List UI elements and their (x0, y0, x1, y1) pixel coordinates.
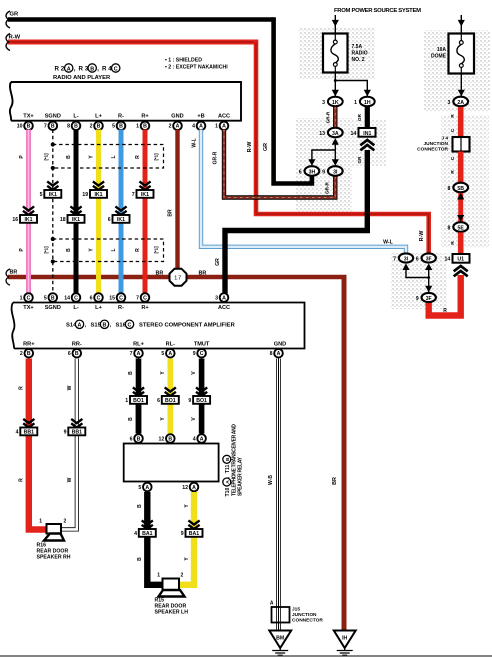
svg-text:A: A (168, 351, 172, 357)
svg-text:4: 4 (16, 429, 19, 435)
svg-text:R-W: R-W (247, 141, 253, 153)
wire R from J4 to 5B (450, 152, 461, 183)
svg-text:IK1: IK1 (72, 217, 80, 223)
connector J4 junction (417, 136, 469, 153)
svg-text:GR-R: GR-R (213, 151, 219, 164)
svg-text:J 4: J 4 (441, 136, 448, 142)
svg-text:RL-: RL- (166, 342, 175, 348)
wire R from 5E to U1 (450, 232, 461, 254)
speaker R16 rear door RH (37, 519, 71, 561)
branch from 3A to 3H and 3I (308, 138, 339, 166)
page footer rule (0, 655, 492, 657)
svg-text:6: 6 (68, 351, 71, 357)
stipple shading around dome fuse (424, 30, 490, 112)
svg-text:13: 13 (319, 131, 325, 137)
svg-text:GR: GR (357, 156, 362, 164)
svg-text:A: A (225, 480, 231, 484)
svg-text:GR: GR (357, 113, 362, 121)
svg-text:,: , (97, 66, 99, 73)
svg-text:6: 6 (130, 436, 133, 442)
svg-text:8: 8 (270, 351, 273, 357)
svg-text:SPEAKER RELAY: SPEAKER RELAY (238, 456, 244, 496)
svg-text:+B: +B (197, 113, 204, 119)
svg-text:TELEPHONE TRANSCEIVER AND: TELEPHONE TRANSCEIVER AND (232, 424, 238, 496)
svg-text:B: B (128, 371, 134, 375)
svg-text:CONNECTOR: CONNECTOR (417, 147, 448, 153)
svg-text:A: A (137, 351, 141, 357)
svg-text:1: 1 (157, 573, 160, 579)
svg-text:B: B (137, 504, 143, 508)
svg-text:1: 1 (136, 124, 139, 130)
label RADIO AND PLAYER (53, 75, 111, 81)
connector 8 5E (448, 222, 469, 232)
svg-text:R-W: R-W (419, 230, 425, 242)
svg-text:IH: IH (342, 636, 347, 642)
svg-text:GR: GR (263, 143, 269, 151)
svg-text:B: B (66, 155, 72, 159)
svg-text:17: 17 (174, 276, 182, 282)
svg-text:GND: GND (171, 113, 183, 119)
dome feed arrow (458, 15, 465, 34)
svg-text:B: B (51, 124, 55, 130)
svg-text:7.5A: 7.5A (352, 44, 363, 50)
wire BR radio GND down to bus (168, 130, 178, 272)
wire L R- blue (111, 130, 121, 294)
fuse 7.5A RADIO NO.2 (323, 34, 368, 73)
svg-text:2: 2 (90, 124, 93, 130)
stipple shading around 3A 3H 3I connectors (296, 118, 352, 213)
connector 7 3I right (393, 253, 413, 270)
svg-text:7: 7 (393, 256, 396, 262)
svg-text:BR: BR (156, 271, 164, 277)
svg-text:1H: 1H (364, 100, 371, 106)
svg-text:3F: 3F (426, 296, 432, 302)
svg-text:C: C (27, 295, 31, 301)
svg-text:C: C (450, 156, 456, 160)
connector 5 IK1 on SGND (40, 181, 62, 198)
svg-text:GR: GR (10, 12, 20, 18)
svg-text:JUNCTION: JUNCTION (423, 141, 448, 147)
wire GR from 1H to IN1 (357, 107, 368, 128)
svg-text:C: C (119, 295, 123, 301)
radio pin labels (23, 113, 230, 119)
svg-text:W-L: W-L (383, 240, 394, 246)
svg-text:R-: R- (118, 305, 124, 311)
svg-text:9: 9 (181, 531, 184, 537)
svg-text:BA1: BA1 (189, 531, 199, 537)
label R2 A R3 B R4 C (55, 64, 120, 73)
svg-text:BR: BR (199, 271, 207, 277)
svg-text:T11: T11 (225, 465, 231, 474)
svg-text:L-: L- (73, 305, 78, 311)
svg-text:5: 5 (44, 295, 47, 301)
svg-text:9: 9 (193, 351, 196, 357)
svg-text:TX+: TX+ (23, 305, 34, 311)
svg-text:C: C (200, 351, 204, 357)
svg-text:STEREO COMPONENT AMPLIFIER: STEREO COMPONENT AMPLIFIER (139, 323, 236, 329)
svg-text:BO1: BO1 (196, 398, 207, 404)
wire R from 5B to 5E (457, 193, 464, 222)
svg-text:IK1: IK1 (94, 192, 102, 198)
svg-text:A: A (222, 124, 226, 130)
relay output pin circles (138, 483, 198, 492)
connector J15 junction (270, 601, 323, 624)
svg-text:3: 3 (215, 295, 218, 301)
svg-text:GR: GR (215, 258, 221, 266)
svg-text:R: R (19, 478, 25, 482)
svg-text:10: 10 (17, 124, 23, 130)
feed into 2A (458, 74, 465, 97)
svg-text:SGND: SGND (45, 113, 61, 119)
svg-text:2: 2 (169, 124, 172, 130)
connector 16 IK1 on TX+ (12, 206, 37, 223)
svg-text:L: L (111, 155, 117, 158)
amp input pin circles (20, 293, 229, 302)
amp output pin circles (20, 349, 283, 358)
wire BR horizontal bus (6, 269, 346, 285)
wire R RR+ red to speaker RH (19, 359, 49, 530)
svg-text:B: B (66, 248, 72, 252)
svg-text:2: 2 (64, 519, 67, 525)
shield dashed box 2 (44, 237, 164, 264)
svg-text:BO1: BO1 (165, 398, 176, 404)
svg-text:IN1: IN1 (363, 131, 371, 137)
wire Y relay to speaker LH (177, 492, 194, 585)
svg-text:B: B (143, 124, 147, 130)
wire W-L from +B (192, 130, 407, 254)
svg-text:B: B (119, 124, 123, 130)
svg-text:GR-R: GR-R (325, 181, 330, 193)
connector 6 3H (299, 166, 320, 176)
svg-text:A: A (199, 124, 203, 130)
svg-text:L: L (111, 248, 117, 251)
svg-text:12: 12 (182, 485, 188, 491)
svg-text:R: R (450, 170, 456, 174)
svg-text:J15: J15 (292, 607, 300, 613)
svg-text:L+: L+ (95, 305, 102, 311)
svg-text:R+: R+ (141, 113, 149, 119)
ground BM (269, 631, 291, 656)
connector 4 BB1 (16, 419, 38, 436)
svg-text:19: 19 (82, 192, 88, 198)
svg-text:B: B (128, 417, 134, 421)
svg-text:7: 7 (44, 124, 47, 130)
amp output pin labels (23, 342, 286, 348)
svg-text:DOME: DOME (431, 54, 447, 60)
svg-text:B: B (74, 124, 78, 130)
connector 9 3I (322, 166, 343, 194)
svg-text:• 1 : SHIELDED: • 1 : SHIELDED (165, 58, 202, 64)
svg-text:W: W (67, 477, 73, 482)
svg-text:B: B (168, 436, 172, 442)
wire R R+ red (135, 130, 145, 294)
svg-text:SPEAKER LH: SPEAKER LH (155, 610, 189, 616)
connector 1 1H (354, 97, 375, 107)
connector 1 BO1 (125, 387, 147, 404)
amplifier box (12, 303, 305, 349)
svg-text:6: 6 (108, 217, 111, 223)
svg-text:RR-: RR- (72, 342, 82, 348)
shield dashed box 1 (44, 142, 164, 170)
svg-text:3H: 3H (309, 169, 316, 175)
svg-text:BR: BR (332, 477, 338, 485)
svg-text:A: A (67, 66, 71, 72)
svg-text:6: 6 (416, 256, 419, 262)
svg-text:W-L: W-L (192, 138, 198, 147)
svg-text:3A: 3A (332, 131, 339, 137)
wire GR-R from 1K to 3A (326, 107, 336, 127)
svg-text:BB1: BB1 (72, 429, 82, 435)
svg-text:R-: R- (118, 113, 124, 119)
svg-text:7: 7 (136, 295, 139, 301)
svg-text:IK1: IK1 (141, 192, 149, 198)
radio pin circles row (17, 122, 229, 131)
svg-text:1: 1 (215, 124, 218, 130)
feed split below radio fuse (332, 73, 371, 97)
connector 13 3A (319, 128, 342, 138)
wire Y RL- yellow (160, 359, 170, 434)
wire SGND shield drain dashed (52, 130, 54, 294)
svg-text:5: 5 (40, 192, 43, 198)
svg-text:L-: L- (73, 113, 78, 119)
svg-text:R 3: R 3 (79, 66, 89, 73)
svg-text:R: R (19, 386, 25, 390)
svg-text:6: 6 (90, 295, 93, 301)
svg-text:[*1]: [*1] (44, 153, 49, 161)
stipple shading around IN1 (352, 120, 386, 166)
svg-text:BM: BM (276, 636, 284, 642)
connector 6 3F (416, 253, 436, 270)
svg-text:• 2 : EXCEPT NAKAMICHI: • 2 : EXCEPT NAKAMICHI (165, 65, 228, 71)
label S14 S15 S16 STEREO COMPONENT AMPLIFIER (66, 320, 236, 329)
svg-text:BR: BR (10, 269, 18, 275)
svg-text:14: 14 (351, 131, 357, 137)
label T10 A T11 B telephone transceiver and speaker relay (223, 424, 244, 497)
connector 3 2A (448, 97, 469, 107)
feed arrow into radio fuse (332, 15, 339, 34)
svg-text:RL+: RL+ (133, 342, 144, 348)
svg-text:14: 14 (445, 257, 451, 263)
svg-text:R+: R+ (141, 305, 149, 311)
connector 4 BA1 (134, 520, 156, 537)
svg-text:TMUT: TMUT (194, 342, 210, 348)
svg-text:T10: T10 (225, 487, 231, 496)
svg-text:2: 2 (181, 573, 184, 579)
wire R-W top horizontal from left (6, 34, 256, 51)
svg-text:BO1: BO1 (133, 398, 144, 404)
connector 6 BO1 (157, 387, 179, 404)
svg-text:A: A (145, 485, 149, 491)
svg-text:1: 1 (20, 295, 23, 301)
stipple shading around radio fuse (299, 27, 375, 79)
svg-text:R-W: R-W (9, 35, 21, 41)
svg-text:FROM POWER SOURCE SYSTEM: FROM POWER SOURCE SYSTEM (334, 8, 421, 14)
fuse 10A DOME (431, 34, 474, 74)
svg-text:5: 5 (112, 124, 115, 130)
wire V TMUT (191, 359, 201, 434)
svg-text:3I: 3I (333, 169, 338, 175)
svg-text:JUNCTION: JUNCTION (292, 612, 317, 618)
svg-text:B: B (90, 66, 94, 72)
svg-text:[*1]: [*1] (44, 246, 49, 254)
svg-text:SPEAKER RH: SPEAKER RH (37, 555, 71, 561)
svg-text:14: 14 (64, 295, 70, 301)
svg-text:IK1: IK1 (24, 217, 32, 223)
svg-text:B: B (225, 457, 231, 461)
svg-text:A: A (277, 351, 281, 357)
wire P TX+ pink (19, 130, 29, 294)
svg-text:18: 18 (60, 217, 66, 223)
svg-text:1K: 1K (332, 100, 339, 106)
svg-text:8: 8 (448, 186, 451, 192)
svg-text:9: 9 (322, 169, 325, 175)
wire B RL+ black (128, 359, 139, 434)
connector 6 IK1 on R- (108, 206, 130, 223)
svg-text:NO. 2: NO. 2 (352, 57, 365, 63)
branch below 3I 3F to 9 3F (406, 268, 432, 292)
connector 7 IK1 on R+ (132, 181, 154, 198)
svg-text:12: 12 (159, 436, 165, 442)
svg-text:5E: 5E (458, 225, 465, 231)
svg-text:R: R (443, 308, 447, 314)
connector 8 5B (448, 183, 469, 193)
wire GR from IN1 to amp ACC (215, 150, 367, 294)
svg-text:C: C (128, 323, 132, 329)
connector 3 1K (322, 97, 343, 107)
svg-text:R: R (450, 241, 456, 245)
svg-text:C: C (143, 295, 147, 301)
svg-text:5B: 5B (457, 186, 464, 192)
svg-text:BA1: BA1 (142, 531, 152, 537)
stipple shading around 3I 3F cluster (391, 253, 447, 309)
svg-text:5: 5 (138, 485, 141, 491)
svg-text:IK1: IK1 (49, 192, 57, 198)
svg-text:B: B (137, 557, 143, 561)
svg-text:6: 6 (299, 169, 302, 175)
connector 9 BO1 (188, 387, 210, 404)
svg-text:9: 9 (416, 296, 419, 302)
svg-text:R: R (135, 155, 141, 159)
svg-text:RR+: RR+ (23, 342, 35, 348)
svg-text:CONNECTOR: CONNECTOR (292, 618, 323, 624)
svg-text:2: 2 (20, 351, 23, 357)
svg-text:3F: 3F (426, 256, 432, 262)
svg-text:B: B (27, 351, 31, 357)
svg-text:3: 3 (448, 100, 451, 106)
connector 9 BA1 (181, 520, 203, 537)
svg-text:W: W (67, 385, 73, 390)
wire B L- black (66, 130, 76, 294)
stipple shading around J4 5B 5E (441, 115, 489, 248)
svg-text:BB1: BB1 (24, 429, 34, 435)
svg-text:B: B (51, 295, 55, 301)
svg-text:A: A (78, 323, 82, 329)
svg-text:A: A (192, 485, 196, 491)
wire W-B amp GND to ground (268, 359, 279, 631)
wire GR vertical and elbow to connector 3H (263, 17, 312, 183)
wire R-W vertical and horizontal run to connector 3F (247, 40, 429, 253)
svg-text:R 2: R 2 (55, 66, 65, 73)
svg-text:1: 1 (39, 519, 42, 525)
svg-text:A: A (200, 436, 204, 442)
svg-text:,: , (74, 66, 76, 73)
svg-text:C: C (450, 128, 456, 132)
svg-text:B: B (137, 436, 141, 442)
wire BR vertical down to ground IH (332, 277, 344, 631)
connector 9 BB1 (64, 419, 86, 436)
svg-text:4: 4 (134, 531, 137, 537)
svg-text:L+: L+ (95, 113, 102, 119)
svg-text:GR-R: GR-R (326, 111, 331, 123)
wire GR top horizontal from left (6, 11, 274, 28)
connector 9 3F lower (416, 293, 436, 302)
radio and player box (10, 82, 241, 121)
svg-text:[*1]: [*1] (154, 153, 159, 161)
label FROM POWER SOURCE SYSTEM (334, 8, 421, 14)
svg-text:TX+: TX+ (23, 113, 34, 119)
svg-text:16: 16 (12, 217, 18, 223)
svg-text:7: 7 (130, 351, 133, 357)
svg-text:15: 15 (109, 295, 115, 301)
svg-text:SGND: SGND (45, 305, 61, 311)
svg-text:9: 9 (188, 398, 191, 404)
telephone transceiver and speaker relay box (124, 444, 219, 482)
svg-text:R: R (450, 114, 456, 118)
svg-text:B: B (27, 124, 31, 130)
svg-text:R 4: R 4 (102, 66, 112, 73)
svg-text:GND: GND (274, 342, 286, 348)
svg-text:C: C (97, 295, 101, 301)
svg-text:RADIO: RADIO (352, 51, 368, 57)
relay input pin circles (130, 434, 206, 443)
junction ring 17 on BR bus (170, 269, 187, 286)
svg-text:C: C (74, 295, 78, 301)
svg-text:IK1: IK1 (117, 217, 125, 223)
svg-text:4: 4 (193, 436, 196, 442)
svg-text:5: 5 (161, 351, 164, 357)
wire B relay to speaker LH (137, 492, 164, 585)
svg-text:4: 4 (192, 124, 195, 130)
svg-text:U1: U1 (457, 257, 464, 263)
svg-text:B: B (103, 323, 107, 329)
wire R elbow from U1 up to 9 3F (429, 275, 461, 316)
svg-text:C: C (114, 66, 118, 72)
connector 14 U1 (445, 254, 470, 276)
connector 14 IN1 (351, 128, 376, 163)
svg-text:2A: 2A (457, 100, 464, 106)
connector 18 IK1 on L- (60, 206, 85, 223)
svg-text:3: 3 (322, 100, 325, 106)
svg-text:9: 9 (64, 429, 67, 435)
svg-text:B: B (75, 351, 79, 357)
connector 19 IK1 on L+ (82, 181, 107, 198)
ground IH (334, 631, 356, 656)
svg-text:A: A (222, 295, 226, 301)
wire Y L+ yellow (89, 130, 99, 294)
svg-text:7: 7 (132, 192, 135, 198)
svg-text:ACC: ACC (218, 113, 230, 119)
svg-text:8: 8 (448, 225, 451, 231)
svg-text:8: 8 (67, 124, 70, 130)
svg-text:1: 1 (354, 100, 357, 106)
note 1 SHIELDED 2 EXCEPT NAKAMICHI (165, 58, 228, 71)
wire GR-R from radio ACC to 3I branch (213, 130, 336, 198)
svg-text:RADIO AND PLAYER: RADIO AND PLAYER (53, 75, 111, 81)
svg-text:ACC: ACC (218, 305, 230, 311)
svg-text:[*1]: [*1] (154, 246, 159, 254)
amp input pin labels (23, 305, 230, 311)
svg-text:10A: 10A (437, 47, 447, 53)
